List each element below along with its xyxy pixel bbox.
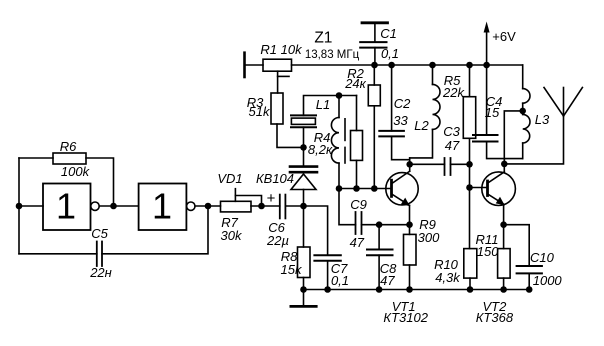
capacitor C7 (314, 255, 340, 261)
wire C3 to R5 line (451, 163, 470, 165)
gate DD1.1 output bubble (91, 202, 99, 210)
svg-text:L1: L1 (316, 97, 330, 112)
capacitor C10 (517, 266, 542, 273)
svg-text:0,1: 0,1 (381, 46, 399, 61)
svg-text:+6V: +6V (492, 29, 516, 44)
svg-text:КТ3102: КТ3102 (383, 310, 428, 325)
svg-text:33: 33 (393, 113, 408, 128)
svg-text:0,1: 0,1 (331, 273, 349, 288)
resistor R3 (271, 93, 283, 124)
wire VT1 emitter down (409, 205, 411, 224)
wire C5 bottom run left (19, 253, 97, 255)
svg-text:8,2к: 8,2к (308, 142, 333, 157)
svg-text:C1: C1 (380, 26, 397, 41)
resistor R2 (373, 65, 375, 85)
transistor VT1 (386, 173, 418, 205)
wire R3 bottom to crystal node (277, 124, 304, 147)
resistor R11 (503, 225, 505, 249)
svg-text:300: 300 (418, 230, 440, 245)
antenna (544, 88, 582, 117)
svg-text:22k: 22k (442, 85, 465, 100)
wire VT2 emitter down (503, 205, 505, 225)
svg-text:22н: 22н (89, 265, 112, 280)
svg-text:13,83 МГц: 13,83 МГц (305, 49, 360, 61)
wire R6 right to node (86, 158, 114, 206)
svg-text:15: 15 (485, 105, 500, 120)
svg-text:30k: 30k (221, 228, 243, 243)
capacitor C9 (355, 212, 357, 234)
wire R1 tap + stub (277, 71, 279, 93)
capacitor C4 (486, 65, 488, 135)
svg-text:R1 10k: R1 10k (260, 42, 303, 57)
wire R7 right lead (251, 205, 280, 207)
svg-text:VD1: VD1 (217, 171, 242, 186)
inductor L3 (522, 65, 524, 89)
wire top rail (292, 64, 523, 66)
wire R7 tap (234, 189, 236, 202)
svg-text:C5: C5 (91, 226, 108, 241)
svg-text:C2: C2 (394, 96, 411, 111)
capacitor C2 (391, 65, 393, 131)
resistor R4 (356, 96, 358, 131)
capacitor C1 (374, 23, 376, 42)
wire C6-node down to R8 (303, 206, 305, 247)
svg-text:15k: 15k (281, 262, 303, 277)
input terminal bar (243, 53, 246, 77)
wire node to C7 (304, 206, 328, 255)
svg-text:L2: L2 (414, 118, 429, 133)
svg-text:+: + (267, 190, 276, 207)
resistor R5 (469, 65, 471, 97)
svg-text:51k: 51k (249, 104, 271, 119)
svg-text:Z1: Z1 (314, 30, 332, 47)
wire R5 bottom long vertical to R10 (469, 138, 471, 248)
inductor L1 core (dashed) (344, 119, 346, 141)
svg-text:47: 47 (350, 235, 365, 250)
wire gate1 out to gate2 in (99, 205, 138, 207)
wire VT2 base (470, 187, 488, 189)
gate DD1.2 (139, 184, 187, 231)
svg-text:КВ104: КВ104 (256, 171, 294, 186)
crystal Z1 (291, 115, 316, 127)
node wire to VT1 base (339, 188, 392, 190)
resistor R7 (221, 201, 252, 212)
wire terminal to R1 (245, 64, 264, 66)
varicap VD1 (290, 167, 317, 173)
wire left oscillator loop vertical (18, 158, 20, 254)
svg-text:47: 47 (380, 273, 395, 288)
wire node to antenna (504, 116, 563, 164)
resistor R6 (53, 153, 86, 164)
wire crystal bottom to VD1 (303, 127, 305, 166)
svg-text:47: 47 (445, 138, 460, 153)
inductor L1 (338, 96, 340, 118)
wire gate2 out to R7 (195, 205, 221, 207)
capacitor C6 (279, 195, 281, 219)
wire crystal top run (304, 96, 357, 116)
gate DD1.2 output bubble (187, 202, 195, 210)
resistor R1 (263, 59, 292, 71)
svg-text:КТ368: КТ368 (476, 310, 514, 325)
ground bar top (C1) (362, 21, 388, 24)
resistor R10 (464, 249, 477, 279)
svg-text:100k: 100k (61, 164, 91, 179)
capacitor C3 (444, 158, 446, 175)
wire C9 right to emitter (362, 224, 410, 226)
ground (303, 290, 305, 307)
svg-text:C10: C10 (530, 250, 555, 265)
transistor VT2 (482, 172, 516, 206)
svg-text:C9: C9 (350, 197, 367, 212)
svg-text:22µ: 22µ (266, 233, 289, 248)
wire VD1 to node (303, 190, 305, 207)
wire gate1 input (19, 205, 43, 207)
wire node to C3 (410, 163, 445, 165)
wire C6 to node (285, 205, 303, 207)
capacitor C8 (378, 225, 380, 250)
svg-text:4,3k: 4,3k (435, 270, 461, 285)
wire collector node vertical VT1 (409, 158, 411, 171)
capacitor C5 (96, 242, 98, 267)
+6V arrow (486, 30, 488, 65)
svg-text:1000: 1000 (533, 273, 563, 288)
svg-text:C3: C3 (443, 124, 460, 139)
inductor L2 (432, 65, 434, 84)
wire emitter VT2 to C10 (504, 225, 530, 266)
wire L3 tap (504, 111, 522, 164)
resistor R8 (298, 247, 311, 278)
wire C5 right run (102, 206, 208, 254)
svg-text:150: 150 (477, 244, 499, 259)
resistor R9 (409, 225, 411, 235)
svg-text:1: 1 (56, 186, 76, 227)
gate DD1.1 (43, 184, 91, 231)
svg-text:1: 1 (152, 186, 172, 227)
wire ground bus (304, 289, 530, 291)
svg-text:R6: R6 (60, 139, 77, 154)
svg-text:L3: L3 (535, 112, 550, 127)
wire C9 left lead (339, 189, 356, 225)
wire R6 top run (19, 157, 53, 159)
svg-text:24к: 24к (344, 76, 366, 91)
wire collector node VT2 (503, 159, 505, 172)
